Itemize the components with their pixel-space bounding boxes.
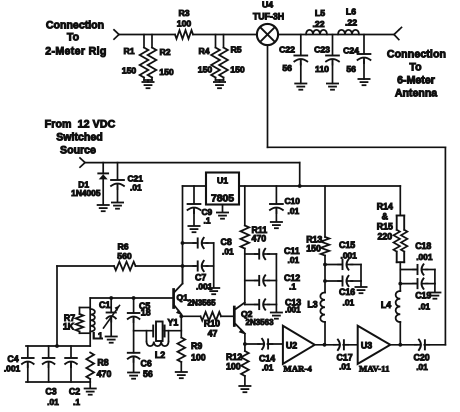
svg-text:.01: .01: [47, 397, 59, 407]
svg-text:.001: .001: [4, 364, 21, 374]
svg-text:MAR-4: MAR-4: [283, 364, 312, 374]
svg-text:C2: C2: [69, 387, 80, 397]
svg-text:100: 100: [191, 353, 206, 363]
svg-text:150: 150: [159, 67, 174, 77]
svg-text:Connection: Connection: [46, 20, 104, 32]
svg-text:100: 100: [177, 19, 192, 29]
svg-text:Switched: Switched: [56, 132, 103, 144]
svg-text:U2: U2: [286, 341, 297, 351]
svg-text:220: 220: [377, 232, 392, 242]
svg-text:C20: C20: [414, 353, 430, 363]
svg-text:.01: .01: [416, 362, 428, 372]
svg-text:47: 47: [208, 329, 218, 339]
svg-text:56: 56: [143, 369, 153, 379]
svg-text:U3: U3: [361, 341, 372, 351]
svg-text:To: To: [409, 62, 422, 74]
svg-text:2N3565: 2N3565: [188, 299, 217, 308]
svg-text:Y1: Y1: [168, 318, 179, 328]
svg-text:.01: .01: [343, 298, 355, 308]
svg-text:R2: R2: [159, 47, 170, 57]
svg-text:100: 100: [226, 362, 241, 372]
svg-text:.01: .01: [339, 362, 351, 372]
svg-text:150: 150: [122, 66, 137, 76]
svg-text:110: 110: [315, 64, 329, 74]
svg-text:2N3563: 2N3563: [246, 318, 275, 327]
svg-text:R8: R8: [97, 358, 108, 368]
svg-text:C8: C8: [221, 237, 232, 247]
svg-text:L4: L4: [381, 300, 391, 310]
svg-text:L2: L2: [155, 350, 165, 360]
svg-text:.01: .01: [288, 206, 300, 216]
svg-text:6-Meter: 6-Meter: [397, 75, 435, 87]
svg-text:C6: C6: [141, 359, 152, 369]
svg-text:C15: C15: [339, 240, 355, 250]
svg-text:.01: .01: [288, 255, 300, 265]
svg-text:C16: C16: [339, 287, 355, 297]
svg-text:R10: R10: [204, 319, 220, 329]
svg-text:C4: C4: [7, 354, 18, 364]
svg-text:R3: R3: [178, 8, 189, 18]
svg-text:1K: 1K: [63, 322, 75, 332]
svg-text:C22: C22: [279, 45, 295, 55]
svg-text:470: 470: [97, 369, 112, 379]
svg-text:R5: R5: [230, 45, 241, 55]
svg-text:C24: C24: [343, 46, 359, 56]
svg-text:U4: U4: [262, 0, 273, 10]
svg-text:560: 560: [117, 251, 132, 261]
svg-text:To: To: [67, 32, 80, 44]
svg-text:&: &: [382, 212, 389, 222]
svg-text:2-Meter Rig: 2-Meter Rig: [45, 46, 107, 58]
svg-text:.1: .1: [289, 282, 296, 292]
svg-text:.01: .01: [130, 183, 142, 193]
svg-text:MAV-11: MAV-11: [359, 364, 389, 374]
svg-text:Connection: Connection: [387, 49, 446, 61]
svg-text:.001: .001: [285, 306, 301, 315]
svg-text:7805: 7805: [211, 194, 234, 205]
svg-text:150: 150: [198, 65, 213, 75]
svg-text:Antenna: Antenna: [395, 88, 437, 100]
svg-text:R14: R14: [377, 202, 393, 212]
svg-text:C19: C19: [415, 291, 431, 301]
svg-text:18: 18: [141, 308, 151, 318]
svg-text:L3: L3: [307, 300, 317, 310]
svg-text:TUF-3H: TUF-3H: [253, 12, 284, 22]
svg-text:C1: C1: [99, 300, 110, 310]
svg-text:470: 470: [252, 234, 267, 244]
svg-text:R4: R4: [198, 46, 209, 56]
svg-text:C18: C18: [415, 241, 431, 251]
svg-text:R12: R12: [226, 352, 242, 362]
svg-text:Q1: Q1: [177, 293, 189, 303]
svg-text:56: 56: [346, 64, 356, 74]
svg-text:R9: R9: [191, 341, 202, 351]
svg-text:From 12 VDC: From 12 VDC: [45, 119, 116, 131]
svg-text:.22: .22: [345, 18, 357, 28]
svg-text:C23: C23: [314, 45, 330, 55]
svg-text:.001: .001: [341, 251, 358, 261]
svg-text:R6: R6: [117, 242, 128, 252]
svg-text:150: 150: [230, 65, 245, 75]
svg-text:U1: U1: [217, 176, 228, 186]
svg-text:L6: L6: [346, 7, 356, 17]
svg-text:.001: .001: [196, 282, 213, 292]
svg-text:.01: .01: [222, 247, 234, 257]
svg-text:.22: .22: [312, 19, 324, 29]
svg-text:150: 150: [306, 244, 321, 254]
svg-text:L1: L1: [92, 331, 102, 341]
svg-text:C10: C10: [285, 196, 301, 206]
svg-text:56: 56: [282, 63, 292, 73]
svg-text:.01: .01: [262, 363, 274, 373]
svg-text:C3: C3: [45, 387, 56, 397]
svg-text:Source: Source: [60, 145, 96, 157]
svg-text:.1: .1: [204, 216, 211, 226]
svg-text:.01: .01: [418, 302, 430, 312]
svg-text:1N4005: 1N4005: [71, 188, 101, 198]
svg-text:R15: R15: [377, 222, 393, 232]
svg-text:L5: L5: [315, 8, 325, 18]
svg-text:.001: .001: [416, 252, 433, 262]
svg-text:R1: R1: [123, 46, 134, 56]
svg-text:.1: .1: [73, 397, 80, 407]
